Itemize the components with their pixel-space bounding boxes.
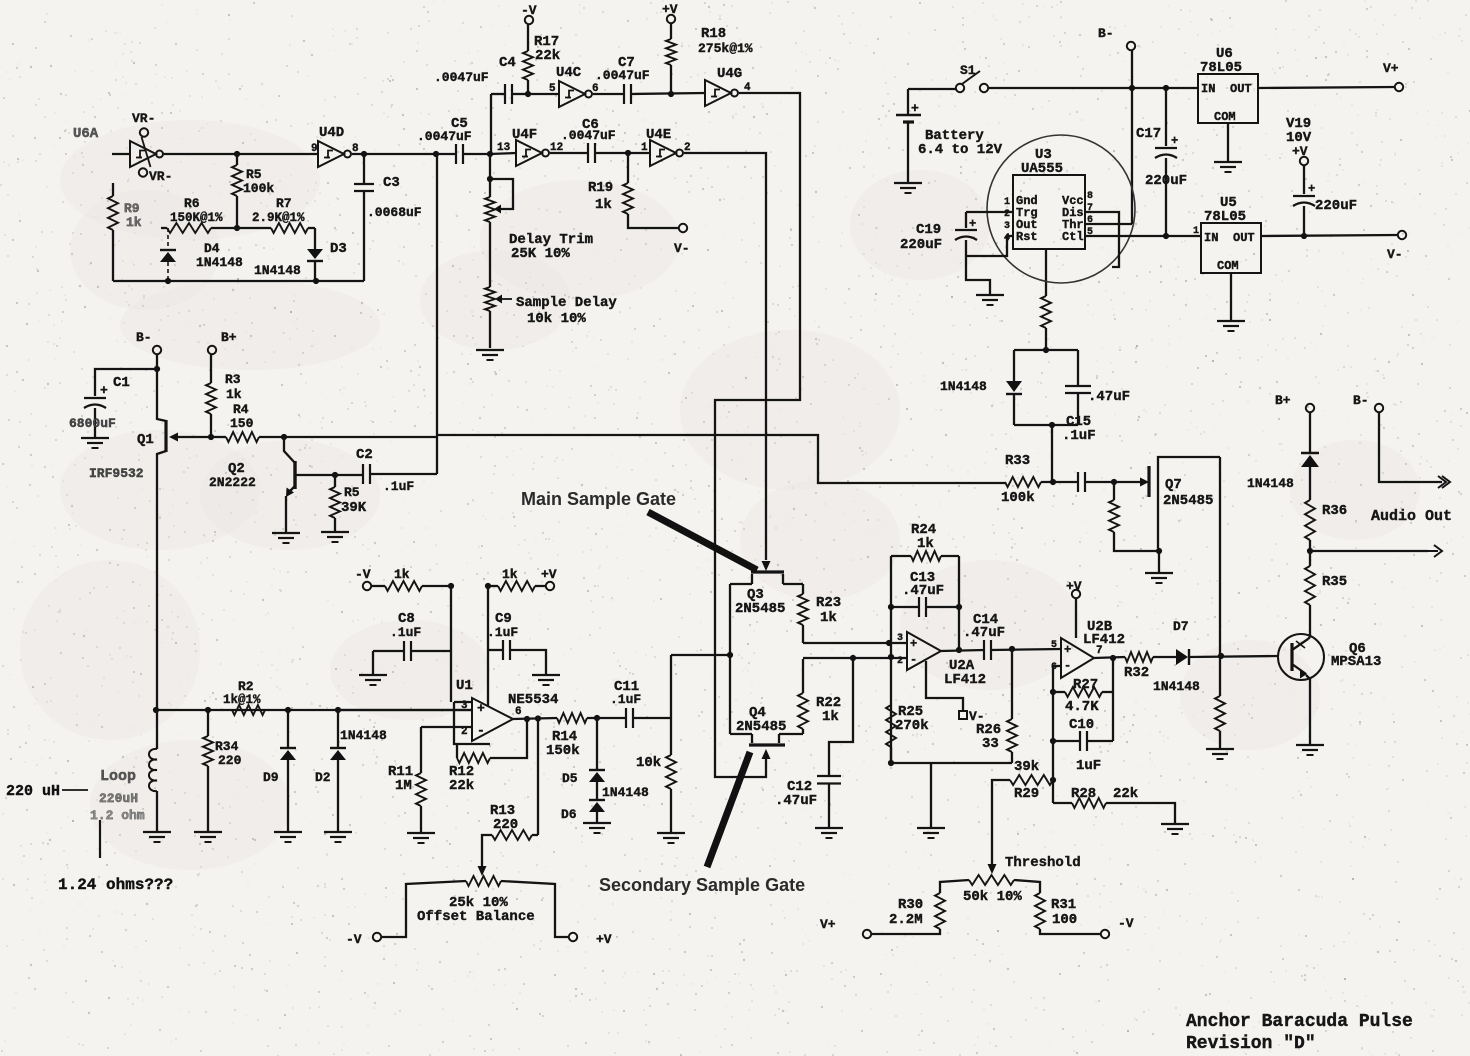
transistor Q4 2N5485 sample gate [749,743,785,746]
node audio junction [1307,548,1313,554]
node C8 right [448,583,454,589]
ground sample delay [476,349,504,351]
capacitor C19 220uF [966,211,1013,213]
wire B- to Thr [1131,50,1133,224]
annotation pointer line [99,820,101,858]
IC U3 UA555 box [1013,175,1085,249]
resistor R22 1k [802,729,804,734]
node C14 out [1009,646,1015,652]
resistor R4 150 [226,432,259,442]
capacitor C10 1uF [1053,740,1080,742]
svg-text:.47uF: .47uF [1088,389,1130,405]
wire R22 top rail to U2A -in [803,657,907,659]
svg-text:Ctl: Ctl [1062,230,1084,244]
svg-text:1k@1%: 1k@1% [223,693,261,707]
capacitor C8 .1uF [373,650,404,652]
svg-text:Q7: Q7 [1165,477,1182,493]
node C15 left [1050,479,1056,485]
svg-text:1N4148: 1N4148 [196,255,243,270]
svg-text:+: + [1308,182,1315,196]
node Q2 collector junction [281,434,287,440]
svg-text:V-: V- [674,241,690,256]
ground R28 [1161,823,1189,825]
wire audio out lower [1310,550,1428,552]
transistor Q7 2N5485 [1111,479,1117,485]
svg-text:5: 5 [1051,640,1057,651]
wire output feedback rail [1112,658,1114,741]
svg-text:78L05: 78L05 [1200,60,1242,76]
capacitor C5 .0047uF [436,153,456,155]
wire U4G output loop to Q4 gate line [715,93,800,777]
+V terminal offset [569,933,577,941]
svg-text:1N4148: 1N4148 [602,785,649,800]
svg-text:MPSA13: MPSA13 [1331,654,1381,670]
resistor Q7 gate bleed [1113,482,1115,500]
svg-text:R7: R7 [276,196,292,211]
node delay trim top [487,151,493,157]
svg-text:+V: +V [596,932,612,947]
svg-text:C10: C10 [1069,717,1094,733]
wire main to U4F [490,153,516,154]
svg-text:UA555: UA555 [1021,161,1063,177]
resistor R31 100 [1035,893,1045,929]
svg-text:1: 1 [641,142,648,154]
svg-text:D7: D7 [1173,619,1189,634]
svg-text:1M: 1M [395,778,412,794]
svg-text:-V: -V [355,567,371,582]
svg-text:2N5485: 2N5485 [1163,493,1213,509]
svg-text:1.2 ohm: 1.2 ohm [90,808,145,823]
V+ terminal [1395,83,1403,91]
potentiometer Threshold 50k 10% [988,864,997,874]
svg-text:2: 2 [1004,209,1010,220]
svg-text:C2: C2 [356,447,373,463]
V- terminal R19 [679,224,687,232]
ground C1 [81,437,109,439]
wire Q3/Q4 left loop [729,584,731,734]
svg-text:D9: D9 [263,770,279,785]
svg-text:OUT: OUT [1230,82,1252,96]
diode 1N4148 B+ [1309,412,1311,453]
U2A V- pin [926,661,963,711]
ground L1 [143,831,171,833]
svg-text:C19: C19 [916,222,941,238]
wire output down to R13 [537,718,539,835]
node L1 top [153,707,159,713]
diode D5 1N4148 [596,718,598,770]
inverter U4F [516,140,542,166]
capacitor C12 .47uF [817,775,841,777]
svg-text:+: + [1171,134,1178,148]
wire R14 to C11 [587,717,626,719]
op-amp U2B LF412 [1061,638,1094,678]
svg-text:LF412: LF412 [944,672,986,688]
capacitor C4 .0047uF [491,93,505,95]
wire U1 +input [338,709,472,711]
svg-text:COM: COM [1214,110,1236,124]
svg-text:39k: 39k [1014,759,1039,775]
svg-text:U4C: U4C [556,65,582,81]
-V terminal U1 left [363,582,371,590]
wire U2B output [1094,657,1125,658]
svg-text:5: 5 [549,83,556,95]
ground C19 [976,294,1004,296]
svg-text:220uF: 220uF [1315,198,1357,214]
wire to main sample gate row [437,435,1005,483]
svg-text:100k: 100k [243,181,274,196]
svg-text:B+: B+ [1275,393,1291,408]
ground R11 [407,832,435,834]
diode D9 [287,710,289,748]
transistor Q6 MPSA13 [1278,634,1324,680]
svg-text:150K@1%: 150K@1% [170,211,223,225]
svg-text:U4E: U4E [646,127,671,143]
svg-text:R6: R6 [184,196,200,211]
diode D3 1N4148 [314,228,316,249]
node R17 bottom [525,91,531,97]
VR- terminal bottom [139,168,147,176]
svg-text:-V: -V [1118,916,1134,931]
node C5 junction [433,151,439,157]
svg-text:-V: -V [346,932,362,947]
wire R23 to U2A +in [803,642,907,644]
svg-text:1: 1 [1193,226,1199,237]
svg-text:R31: R31 [1051,897,1076,913]
resistor R23 1k [802,584,804,594]
svg-text:R5: R5 [246,167,262,182]
svg-text:U4G: U4G [717,66,742,82]
wire pot right R31 [1014,880,1040,893]
ground C8 [359,674,387,676]
svg-text:B+: B+ [221,330,237,345]
svg-text:1k: 1k [502,567,518,582]
svg-text:3: 3 [1004,221,1010,232]
node U2A output [956,647,962,653]
node left loop junction [727,652,733,658]
svg-text:S1: S1 [960,63,976,78]
inverter U4C [559,81,585,107]
svg-text:9: 9 [311,143,318,155]
wire C4 branch vertical [490,94,492,154]
svg-text:1k: 1k [822,709,839,725]
battery 6.4 to 12V [896,114,921,116]
svg-text:+V: +V [1066,579,1082,594]
wire bottom rail U2A [891,762,1012,764]
capacitor C15 .1uF [1077,472,1079,492]
node R25 bottom [888,760,894,766]
svg-text:R3: R3 [225,372,241,387]
V+ terminal threshold [863,930,871,938]
node R34 top [205,707,211,713]
ground U5 COM [1230,273,1232,320]
svg-text:VR-: VR- [132,111,155,126]
+V terminal R18 [667,15,675,23]
svg-text:39K: 39K [341,500,367,516]
svg-text:1N4148: 1N4148 [340,728,387,743]
resistor R17 22k [527,80,529,94]
wire U1 output [513,718,557,719]
resistor R32 [1125,652,1153,662]
ground D9 [274,831,302,833]
node R27 left [1050,689,1056,695]
svg-text:R2: R2 [238,679,254,694]
ground Q2 emitter [272,532,300,534]
node V19 junction [1301,233,1307,239]
svg-text:150k: 150k [546,743,580,759]
op-amp U1 triangle [472,698,513,741]
svg-text:LF412: LF412 [1083,632,1125,648]
wiper line across U6A [142,137,151,167]
svg-text:1k: 1k [820,610,837,626]
svg-text:Revision "D": Revision "D" [1186,1034,1316,1054]
svg-text:C17: C17 [1136,126,1161,142]
svg-text:.0047uF: .0047uF [417,129,472,144]
node U2A -in [888,654,894,660]
diode 1N4148 par [1013,350,1015,381]
IC U3 UA555 circle [987,135,1135,283]
transistor Q3 2N5485 sample gate [751,570,784,573]
svg-text:Rst: Rst [1016,230,1038,244]
resistor R11 1M [420,727,422,773]
svg-text:-: - [910,653,917,667]
svg-text:.1uF: .1uF [383,479,414,494]
wire +V vertical [487,586,489,706]
svg-text:220 uH: 220 uH [6,783,60,800]
svg-text:IRF9532: IRF9532 [89,466,144,481]
svg-text:1N4148: 1N4148 [940,379,987,394]
annotation arrow secondary [707,752,750,867]
node R5b top [332,472,338,478]
svg-text:Audio Out: Audio Out [1371,508,1452,525]
svg-text:6: 6 [1087,215,1093,226]
node D7 out [1218,653,1224,659]
wire supply rail [988,87,1198,89]
transistor Q1 IRF9532 [157,369,166,421]
wire U5 out to V- [1261,235,1397,236]
svg-text:22k: 22k [535,48,560,64]
svg-text:U4F: U4F [512,127,537,143]
resistor R12 22k [456,744,458,758]
-V terminal R17 [525,16,533,24]
Q4 gate arrow [762,749,771,759]
svg-text:Loop: Loop [100,768,136,785]
resistor R30 2.2M [935,893,945,929]
wire Rst stub [966,236,1013,256]
svg-text:U4D: U4D [319,125,344,141]
wire U4D output [352,153,436,155]
resistor R36 [1305,500,1315,540]
svg-text:R30: R30 [898,897,923,913]
diode D2 1N4148 [337,710,339,748]
svg-text:100: 100 [1052,912,1077,928]
svg-text:78L05: 78L05 [1204,209,1246,225]
wire C4 node to U4C [528,93,559,95]
svg-text:Main Sample Gate: Main Sample Gate [521,489,676,509]
wire C5 node vertical to sample gates [436,154,438,474]
ground D6 [583,822,611,824]
svg-text:1k: 1k [917,536,934,552]
svg-text:10k 10%: 10k 10% [527,311,586,327]
svg-text:10k: 10k [636,755,661,771]
svg-text:Secondary Sample Gate: Secondary Sample Gate [599,875,805,895]
svg-text:150: 150 [230,416,254,431]
svg-text:B-: B- [136,330,152,345]
wire U2B -in [1053,666,1061,803]
capacitor C11 .1uF [625,708,627,728]
ground U6 COM [1227,123,1229,161]
wire -V vertical [450,586,452,702]
svg-text:33: 33 [982,736,999,752]
svg-text:R35: R35 [1322,574,1347,590]
svg-text:220: 220 [493,817,518,833]
svg-text:-: - [477,723,485,738]
potentiometer Offset Balance 25k 10% [478,866,487,876]
V- terminal right [1398,231,1406,239]
inverter U4D [318,141,344,167]
node U2A +in [886,640,892,646]
wire pair top to 555 [1043,347,1049,353]
regulator U5 78L05 [1201,223,1261,273]
resistor R27 4.7K [1053,691,1065,693]
svg-text:6: 6 [515,706,522,718]
svg-text:2N2222: 2N2222 [209,475,256,490]
svg-text:R32: R32 [1124,665,1149,681]
svg-text:2.9K@1%: 2.9K@1% [252,211,305,225]
ground battery [894,182,922,184]
node R5 top junction [234,151,240,157]
svg-text:7: 7 [1096,645,1103,657]
svg-text:8: 8 [1087,191,1093,202]
resistor R25 270k [886,705,896,747]
node R18 bottom [668,91,674,97]
svg-text:2: 2 [897,656,903,667]
node R19 top [625,150,631,156]
resistor R34 220 [207,710,209,736]
wire C11 to sample gate node [670,655,672,755]
svg-text:D3: D3 [330,241,347,257]
svg-text:IN: IN [1201,82,1215,96]
node U1 output-R12 [524,716,530,722]
node D5 top [594,715,600,721]
switch S1 [956,84,964,92]
-V terminal offset [373,933,381,941]
capacitor C1 6800uF [95,369,157,396]
potentiometer Delay Trim 25K 10% [489,154,491,197]
svg-text:COM: COM [1217,259,1239,273]
resistor R13 220 [492,830,532,840]
svg-text:R33: R33 [1005,453,1030,469]
svg-text:C4: C4 [499,55,516,71]
node C12 branch [850,655,856,661]
svg-text:1k: 1k [226,387,242,402]
wire U4E output to Q3 gate [684,153,766,560]
svg-text:25K 10%: 25K 10% [511,246,570,262]
wire B- audio upper [1379,412,1442,482]
node D4 bottom junction [165,278,171,284]
svg-text:1k: 1k [595,197,612,213]
svg-text:IN: IN [1204,231,1218,245]
svg-text:D4: D4 [204,241,220,256]
wire C12 branch [829,658,853,776]
+V terminal U1 right [546,582,554,590]
ground C12 [815,827,843,829]
svg-text:270k: 270k [895,718,929,734]
capacitor C17 220uF [1163,85,1169,91]
svg-text:U1: U1 [456,678,473,694]
resistor R9 [112,183,114,196]
svg-text:22k: 22k [449,778,474,794]
svg-text:1k: 1k [394,567,410,582]
op-amp U1 NE5534 box [454,701,471,703]
node D9 top [285,707,291,713]
svg-text:6800uF: 6800uF [69,416,116,431]
ground Q6 emitter [1296,744,1324,746]
scan smudges [20,120,1420,870]
svg-text:B-: B- [1353,393,1369,408]
svg-text:.1uF: .1uF [610,692,641,707]
resistor drain bleed [1215,696,1225,731]
svg-text:+: + [1064,643,1071,657]
svg-text:.47uF: .47uF [775,793,817,809]
resistor R19 1k [627,153,629,183]
ground D2 [324,831,352,833]
inverter U6A [130,141,156,167]
resistor R28 22k [1072,798,1106,808]
B+ terminal audio [1306,404,1314,412]
resistor R33 100k [1005,477,1041,487]
svg-text:D5: D5 [562,771,578,786]
resistor 1k left [371,585,385,587]
svg-text:275k@1%: 275k@1% [698,41,753,56]
resistor R7 [237,227,271,229]
feedback right rail [958,556,960,650]
wire Dis loop [1085,212,1119,267]
resistor R29 39k [1010,775,1053,785]
svg-text:+: + [100,383,108,398]
svg-text:100k: 100k [1001,490,1035,506]
svg-text:R34: R34 [215,739,239,754]
svg-text:2.2M: 2.2M [889,912,923,928]
inverter U4G [705,80,731,106]
wire bottom rail of input block [113,280,364,282]
svg-text:R5: R5 [344,485,360,500]
resistor R24 1k [891,555,911,557]
capacitor 47uF par [1014,349,1078,351]
wire U4F out to C6 [550,152,588,154]
node R3 bottom [208,434,214,440]
wire to Q3/Q4 left loop [671,654,731,656]
svg-text:.0068uF: .0068uF [367,205,422,220]
wire U2A output [941,650,984,651]
svg-text:3: 3 [897,633,903,644]
svg-text:.1uF: .1uF [487,625,518,640]
potentiometer Sample Delay 10k 10% [489,222,491,287]
svg-text:220: 220 [218,753,242,768]
svg-text:Sample Delay: Sample Delay [516,295,617,311]
svg-text:1k: 1k [126,215,142,230]
svg-text:1: 1 [1004,197,1010,208]
ground 10k [657,832,685,834]
node D3 bottom junction [313,278,319,284]
resistor R5 39K [334,475,336,487]
svg-text:2N5485: 2N5485 [736,719,786,735]
resistor R26 33 [1011,649,1013,719]
annotation arrow main [648,512,757,570]
B- terminal [153,346,161,354]
svg-text:.1uF: .1uF [1062,428,1096,444]
op-amp U2A LF412 [907,632,941,670]
wire Q2 collector to gate line [284,436,437,438]
